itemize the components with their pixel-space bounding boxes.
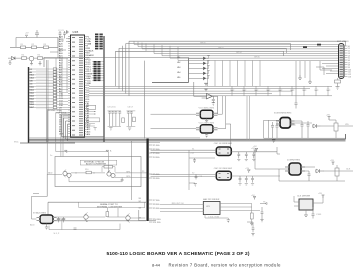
wire heavy vertical bus: [103, 36, 105, 142]
resistor R221: [250, 213, 253, 219]
svg-text:P3 SIG: P3 SIG: [153, 153, 160, 155]
capacitor C315 feedback: [212, 99, 215, 102]
wire top feed: [56, 152, 109, 173]
junction dots: [76, 172, 77, 173]
transistor column Q301-Q305: [177, 55, 210, 80]
svg-text:S9: S9: [139, 198, 141, 200]
svg-text:+5V: +5V: [251, 148, 255, 150]
wire stubs U300 to RP301: [92, 62, 94, 80]
power +5V flag: [247, 170, 250, 173]
IC body: [71, 35, 85, 137]
IC U300 main gate array: [71, 31, 85, 137]
svg-text:24 MHZ REG: 24 MHZ REG: [287, 160, 300, 162]
svg-text:C18: C18: [199, 176, 202, 178]
serial port converter box: [48, 202, 146, 235]
regulator cluster A right: [264, 113, 353, 143]
svg-text:GPIO2: GPIO2: [218, 47, 224, 49]
wire right: [220, 204, 260, 211]
pin marks: [219, 173, 230, 177]
wire below box: [49, 224, 120, 230]
wire box top edge: [44, 58, 189, 68]
wire: [247, 96, 250, 139]
ground: [251, 184, 254, 185]
wire bundle IC bottom to lower band: [62, 115, 105, 141]
capacitor C201: [35, 30, 39, 38]
pin stubs: [285, 167, 305, 171]
regulator body VR301: [280, 118, 291, 129]
wire left pair: [151, 150, 217, 152]
wire from box corner: [194, 82, 207, 98]
transistor Q320: [312, 124, 321, 128]
pin labels right of U305: [85, 36, 95, 135]
node A flag: [106, 150, 109, 151]
resistor R340: [122, 118, 125, 123]
svg-text:CLK DRIVER: CLK DRIVER: [297, 196, 311, 198]
capacitor C232: [74, 228, 77, 230]
node drop wires right of VCO: [247, 96, 250, 139]
vertical bus wires: [47, 58, 68, 143]
connector body bar: [146, 139, 148, 222]
svg-text:EXT VIDEO: EXT VIDEO: [337, 41, 349, 43]
ground: [298, 75, 302, 80]
resistor R204: [22, 57, 27, 60]
svg-text:OSC 24.57600 MHZ: OSC 24.57600 MHZ: [214, 168, 233, 170]
box outline: [55, 157, 141, 187]
svg-text:P7 SIG: P7 SIG: [153, 200, 160, 202]
wire: [139, 210, 156, 221]
svg-text:+5V: +5V: [318, 193, 322, 195]
title block text: [107, 251, 282, 268]
wire band to mid connector: [144, 61, 146, 139]
capacitor C321: [271, 122, 274, 138]
svg-text:P9 SIG: P9 SIG: [153, 208, 160, 210]
wire vertical link below rail: [131, 141, 133, 200]
resistor R202: [32, 46, 37, 49]
svg-text:GPIO0: GPIO0: [200, 43, 206, 45]
wire lower: [69, 177, 141, 182]
wire box right edge: [152, 58, 189, 83]
resistor pack RP301 block: [94, 34, 105, 82]
op-amp U201 input network top-left: [8, 30, 72, 65]
capacitor C318: [195, 174, 198, 179]
diode D202 pair: [67, 31, 69, 34]
pin stubs: [196, 128, 218, 130]
svg-text:P2 SIG: P2 SIG: [153, 149, 160, 151]
regulator VR201 cluster bottom-left: [30, 196, 66, 229]
svg-text:CLK: CLK: [346, 169, 351, 171]
wire box bottom edge: [20, 142, 75, 144]
ground: [205, 135, 208, 138]
resistor R201: [21, 46, 26, 49]
svg-text:GPIO6: GPIO6: [254, 57, 260, 59]
wire stubs into connector lower pins: [322, 64, 339, 74]
wire vertical: [189, 150, 215, 190]
wire: [296, 61, 320, 100]
capacitor C231: [62, 217, 65, 222]
power +5V flag: [255, 149, 258, 152]
address bus rows: [29, 68, 71, 115]
ground: [194, 184, 197, 187]
wire left rail: [264, 120, 346, 138]
power +5V flag: [254, 150, 257, 153]
svg-text:C17: C17: [191, 153, 194, 155]
svg-text:VCO 2457.6 KHZ: VCO 2457.6 KHZ: [199, 122, 215, 124]
svg-text:X1: X1: [192, 148, 194, 150]
svg-text:P1 SIG: P1 SIG: [153, 145, 160, 147]
ground: [245, 184, 248, 185]
svg-text:P3: P3: [142, 171, 144, 173]
serial driver IC U220: [160, 195, 267, 226]
regulator body: [40, 215, 53, 224]
svg-text:VA3: VA3: [177, 66, 180, 69]
svg-text:C6 C7: C6 C7: [128, 107, 133, 109]
svg-text:Revision 7 Board, version w/o: Revision 7 Board, version w/o encryption…: [169, 263, 282, 268]
wire: [316, 67, 332, 75]
wire: [151, 96, 231, 151]
wire sound lines down to audio box: [56, 112, 71, 156]
right side drop wires: [295, 61, 333, 109]
ferrite bead FB2 on band: [317, 44, 321, 46]
ground: [238, 184, 241, 185]
capacitor C324: [312, 207, 315, 219]
svg-text:C3 C4 C5: C3 C4 C5: [107, 107, 115, 109]
wire: [294, 196, 323, 215]
wire: [47, 60, 49, 143]
bottom left link wires: [33, 110, 77, 230]
wire left pair: [151, 174, 217, 176]
ground: [9, 60, 12, 64]
wire box left edge: [28, 67, 30, 143]
svg-text:P11 SIG: P11 SIG: [153, 222, 161, 224]
svg-text:RXD OUT 2-8: RXD OUT 2-8: [172, 203, 184, 205]
svg-text:S8: S8: [139, 208, 141, 210]
capacitor C322: [276, 122, 279, 138]
ground: [30, 61, 33, 65]
wire drops band to cap rail: [208, 61, 261, 87]
wire: [32, 196, 66, 227]
ground: [109, 128, 112, 131]
wire: [33, 110, 47, 197]
oscillator module body: [200, 125, 213, 133]
capacitor C312: [252, 152, 255, 159]
svg-text:C2 C3: C2 C3: [58, 30, 65, 32]
capacitor C314: [245, 176, 248, 183]
transistor Q201: [29, 56, 34, 61]
power +5V flag: [328, 117, 331, 121]
svg-text:VID: VID: [345, 124, 349, 126]
pin marks: [219, 149, 230, 153]
capacitor C323: [301, 121, 304, 138]
capacitor C310: [237, 152, 240, 159]
svg-text:VA5: VA5: [177, 76, 180, 79]
svg-text:+5V: +5V: [330, 160, 334, 162]
capacitor C317: [193, 158, 196, 163]
ground: [308, 80, 312, 84]
wire right: [231, 151, 277, 153]
capacitor C311: [245, 152, 248, 159]
pin stubs: [276, 121, 295, 124]
connector body: [339, 44, 345, 79]
resistor R220: [106, 212, 109, 217]
capacitor C323: [308, 171, 311, 181]
svg-text:AUDIO CONVERTER: AUDIO CONVERTER: [86, 163, 107, 166]
wire: [61, 219, 63, 230]
ground: [251, 233, 254, 236]
middle connector pin labels: [139, 145, 162, 224]
op-amp triangle: [207, 94, 213, 99]
wire input: [47, 174, 62, 196]
left address bus box: [14, 58, 189, 144]
svg-text:VA2: VA2: [177, 61, 180, 64]
wire nested vertical risers: [116, 41, 130, 96]
svg-text:V13: V13: [348, 76, 351, 78]
svg-text:SPK -: SPK -: [126, 176, 131, 178]
svg-text:5V AUD REG: 5V AUD REG: [33, 212, 46, 215]
title label box: [79, 202, 145, 207]
capacitor C330: [108, 111, 111, 127]
nested wires top to right connector: [116, 41, 346, 96]
ground: [250, 223, 253, 226]
wire: [255, 153, 345, 181]
wire rails: [127, 111, 136, 127]
resistor array box RP302: [86, 105, 95, 109]
power +5V flag: [253, 197, 256, 200]
svg-text:VCO 3686.4 KHZ: VCO 3686.4 KHZ: [199, 107, 215, 109]
svg-text:R10: R10: [85, 169, 88, 171]
oscillator module body: [216, 171, 231, 180]
ground: [272, 140, 275, 143]
ground: [260, 219, 263, 222]
svg-text:CAS: CAS: [30, 77, 35, 80]
wire out: [115, 173, 147, 178]
resistor R332: [335, 168, 339, 176]
resistor R330 below connector: [335, 78, 341, 90]
power +5V flag: [322, 195, 325, 198]
ground: [245, 159, 248, 160]
wire low rail: [8, 57, 68, 59]
wire stubs: [63, 38, 72, 41]
capacitor C335: [130, 111, 133, 127]
wire nested top runs: [116, 41, 346, 56]
capacitor C334: [127, 111, 130, 127]
ground: [205, 120, 208, 123]
svg-text:5100-110 LOGIC BOARD VER A SCH: 5100-110 LOGIC BOARD VER A SCHEMATIC (PA…: [107, 251, 250, 257]
dark horizontal rail band: [29, 134, 346, 142]
oscillator module body: [200, 110, 213, 118]
svg-text:P5 SIG: P5 SIG: [153, 174, 160, 176]
wire bottom loop: [205, 215, 228, 220]
capacitor C333: [118, 111, 121, 127]
wire: [29, 134, 346, 141]
wire top rail: [16, 38, 58, 48]
ground: [212, 103, 215, 106]
pin stubs: [37, 218, 57, 221]
capacitor C320: [295, 100, 298, 109]
connector pin ticks: [340, 46, 344, 76]
right connector J2: [337, 41, 349, 79]
capacitor C240: [261, 207, 264, 219]
svg-text:MAX 232 DRIVER: MAX 232 DRIVER: [203, 198, 220, 201]
wire: [56, 58, 67, 100]
wire: [323, 165, 353, 181]
oscillator module body: [216, 147, 231, 156]
capacitor C230: [57, 217, 60, 222]
pin numbers interior: [72, 38, 83, 135]
capacitor group rails: [108, 111, 122, 127]
ground: [94, 128, 97, 131]
capacitor C331: [111, 111, 114, 127]
feedback resistor R211: [104, 165, 113, 168]
ground: [45, 227, 48, 230]
capacitor C316: [251, 176, 254, 183]
wire right stubs: [291, 121, 313, 125]
wire mid rail: [71, 172, 105, 174]
ground: [237, 159, 240, 160]
transistor Q202: [63, 171, 67, 175]
transistor Q204: [84, 215, 88, 219]
regulator body: [289, 163, 301, 175]
transistor Q205: [126, 216, 130, 220]
svg-text:EXT SPKR: EXT SPKR: [57, 113, 67, 115]
bus band into connector J2: [134, 41, 339, 60]
resistor R331: [334, 123, 338, 131]
svg-text:SOUND OUT: SOUND OUT: [48, 110, 61, 112]
title label box: [80, 160, 116, 165]
trimmer network left of oscillators: [189, 150, 215, 190]
IC body: [203, 202, 220, 215]
resistor R205: [38, 57, 43, 60]
svg-text:SPK +: SPK +: [126, 172, 132, 174]
ground: [39, 61, 42, 65]
svg-text:53.693 MHZ REG: 53.693 MHZ REG: [274, 113, 292, 115]
resistor R203: [44, 46, 49, 49]
wire to IC: [50, 38, 66, 59]
svg-text:OSC 14.31818 MHZ: OSC 14.31818 MHZ: [214, 143, 233, 145]
svg-text:S.1, 2: S.1, 2: [54, 233, 60, 235]
svg-text:AUD: AUD: [30, 224, 35, 227]
power flag: [204, 89, 207, 92]
ground: [252, 159, 255, 160]
resistor R341: [133, 117, 136, 122]
svg-text:P10 SIG: P10 SIG: [153, 219, 161, 221]
resistor body: [335, 80, 341, 83]
pin stubs: [196, 113, 218, 115]
filter network below RP301: [85, 105, 136, 130]
node bus band to right mid: [89, 86, 332, 96]
svg-text:+5V: +5V: [326, 115, 330, 117]
capacitor C313: [239, 176, 242, 183]
svg-text:5 VOLT RTN: 5 VOLT RTN: [208, 216, 219, 218]
wire mid rail: [10, 46, 58, 48]
audio circuit box: [47, 149, 146, 196]
svg-text:GPIO4: GPIO4: [236, 52, 242, 54]
VCO module Y301: [151, 96, 223, 123]
svg-text:VA1: VA1: [177, 56, 180, 59]
node out arrow: [260, 203, 267, 205]
capacitor C332: [115, 111, 118, 127]
op-amp U301: [194, 82, 218, 114]
box outline: [48, 202, 146, 221]
wire: [151, 96, 223, 120]
wire left with label: [160, 205, 203, 212]
resistor R210: [86, 171, 91, 174]
svg-text:8-44: 8-44: [152, 263, 161, 268]
svg-text:P8 SIG: P8 SIG: [153, 204, 160, 206]
power flag: [204, 83, 207, 86]
capacitor C350 bottom right: [247, 222, 255, 236]
ground: [128, 128, 131, 131]
svg-text:INTERNAL CONVERTER: INTERNAL CONVERTER: [97, 205, 122, 208]
regulator cluster B right: [251, 148, 353, 181]
oscillator module Y303: [151, 143, 281, 161]
ferrite bead FB1 on band: [303, 46, 307, 48]
IC body U310: [299, 199, 313, 210]
connector J2 right pin labels: [340, 46, 351, 78]
capacitor C324: [307, 121, 310, 138]
wire far right: [277, 147, 280, 154]
ground: [336, 87, 340, 90]
ground: [227, 220, 230, 223]
wire: [52, 208, 145, 218]
wire: [321, 120, 354, 138]
wire: [337, 78, 339, 87]
ground: [304, 215, 308, 217]
power +5V flag: [332, 162, 335, 165]
svg-text:X2: X2: [192, 173, 194, 175]
transistor Q321: [315, 169, 324, 173]
wire upper mid run: [119, 48, 287, 53]
svg-text:RAS: RAS: [30, 74, 35, 77]
svg-text:U305: U305: [73, 31, 79, 34]
wire right: [231, 175, 280, 177]
oscillator module Y304: [151, 168, 281, 185]
svg-text:C345: C345: [316, 214, 322, 216]
capacitor C203: [63, 31, 66, 38]
svg-text:P6 SIG: P6 SIG: [153, 178, 160, 180]
VCO module Y302: [151, 96, 231, 151]
driver cluster C right bottom: [294, 193, 325, 219]
wire rows with junctions: [85, 112, 95, 127]
diode D201: [12, 57, 16, 60]
svg-text:P4 SIG: P4 SIG: [153, 157, 160, 159]
pin labels left of U305: [59, 35, 71, 135]
wire output: [213, 96, 218, 114]
transistor Q203: [107, 172, 111, 176]
svg-text:VA4: VA4: [177, 71, 180, 74]
resistor array box RP303: [86, 118, 99, 122]
middle connector J3: [139, 139, 156, 222]
capacitor C220: [121, 178, 124, 182]
svg-text:SVC: SVC: [14, 142, 19, 144]
capacitor C202: [59, 31, 62, 38]
